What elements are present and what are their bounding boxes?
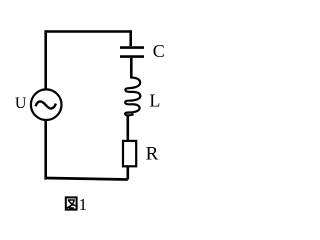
AC source sine wave: [36, 102, 56, 109]
wire right vertical to capacitor: [129, 30, 132, 46]
wire bottom horizontal: [46, 178, 128, 180]
wire top horizontal: [46, 30, 131, 33]
svg-text:U: U: [15, 95, 27, 112]
svg-text:1: 1: [79, 195, 88, 214]
wire resistor to bottom: [127, 166, 130, 179]
svg-text:R: R: [146, 143, 159, 164]
inductor L1 coil: [125, 78, 140, 116]
wire left vertical upper: [44, 30, 47, 179]
svg-text:L: L: [149, 90, 160, 110]
capacitor C1 bottom plate: [120, 55, 144, 58]
caption glyph 图: [66, 197, 77, 209]
svg-text:C: C: [153, 41, 165, 61]
resistor R1 body: [123, 141, 136, 166]
capacitor C1 top plate: [120, 46, 144, 49]
AC source U body: [31, 89, 62, 120]
wire capacitor to inductor: [130, 58, 133, 79]
wire inductor to resistor: [127, 115, 130, 141]
